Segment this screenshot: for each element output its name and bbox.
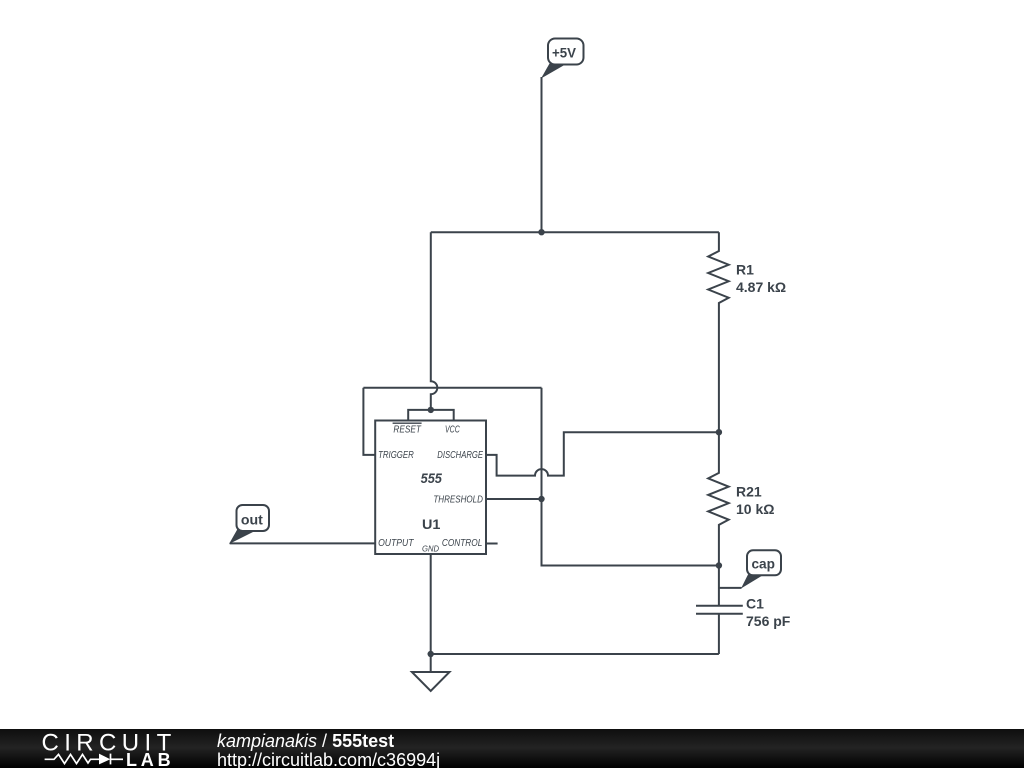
svg-text:U1: U1 <box>422 516 441 532</box>
CircuitLab logo <box>0 729 200 768</box>
wire left vertical from top rail with hop over trigger rail <box>431 232 438 410</box>
op-amp U1 555 timer body <box>375 421 486 555</box>
pin label RESET with overline <box>393 423 422 435</box>
net flag +5V <box>541 39 584 79</box>
ground symbol <box>412 672 450 691</box>
svg-text:TRIGGER: TRIGGER <box>378 450 414 461</box>
wire top rail <box>431 231 719 233</box>
net flag cap <box>741 550 781 588</box>
wire bottom rail <box>431 653 719 655</box>
svg-text:R1: R1 <box>736 262 754 278</box>
wire RESET/VCC tee bar <box>408 410 454 421</box>
resistor R21 <box>708 432 774 606</box>
node junction cap rail / R21 <box>716 562 722 568</box>
net flag out <box>229 505 269 544</box>
svg-text:CONTROL: CONTROL <box>442 538 482 549</box>
wire right vertical x=541.5 down to threshold node and cap rail <box>542 388 719 566</box>
svg-text:VCC: VCC <box>445 424 460 435</box>
svg-text:756 pF: 756 pF <box>746 613 791 629</box>
footer bar <box>0 729 1024 768</box>
svg-text:GND: GND <box>422 544 439 554</box>
wire stub to cap flag <box>719 587 742 589</box>
wire trigger rail down to TRIGGER pin <box>363 388 375 455</box>
wire DISCHARGE pin to R1/R21 node with hop <box>486 432 719 475</box>
svg-text:4.87 kΩ: 4.87 kΩ <box>736 279 786 295</box>
svg-text:R21: R21 <box>736 484 762 500</box>
svg-text:cap: cap <box>751 556 775 572</box>
node junction RESET/VCC tee <box>428 407 434 413</box>
wire THRESHOLD pin to node <box>486 498 542 500</box>
node junction +5V / top rail <box>538 229 544 235</box>
footer url text <box>217 750 440 771</box>
wire trigger rail horizontal <box>363 387 541 389</box>
svg-text:out: out <box>241 512 263 528</box>
capacitor C1 <box>696 596 791 655</box>
wire OUTPUT pin to out flag <box>230 542 376 544</box>
svg-text:C1: C1 <box>746 596 764 612</box>
node junction R1/R21/discharge <box>716 429 722 435</box>
svg-text:LAB: LAB <box>126 750 174 768</box>
svg-text:555: 555 <box>421 470 442 486</box>
footer title text <box>217 732 394 750</box>
wire GND pin down to ground <box>430 554 432 672</box>
svg-text:DISCHARGE: DISCHARGE <box>437 450 483 461</box>
node junction threshold <box>538 496 544 502</box>
resistor R1 <box>708 232 786 432</box>
wire from +5V flag down to top rail <box>541 77 543 232</box>
svg-text:THRESHOLD: THRESHOLD <box>433 494 483 505</box>
svg-text:10 kΩ: 10 kΩ <box>736 501 774 517</box>
svg-text:RESET: RESET <box>393 424 421 435</box>
svg-text:OUTPUT: OUTPUT <box>378 538 414 549</box>
node junction ground rail <box>428 651 434 657</box>
svg-text:+5V: +5V <box>552 45 576 60</box>
pin stub CONTROL <box>486 543 498 545</box>
